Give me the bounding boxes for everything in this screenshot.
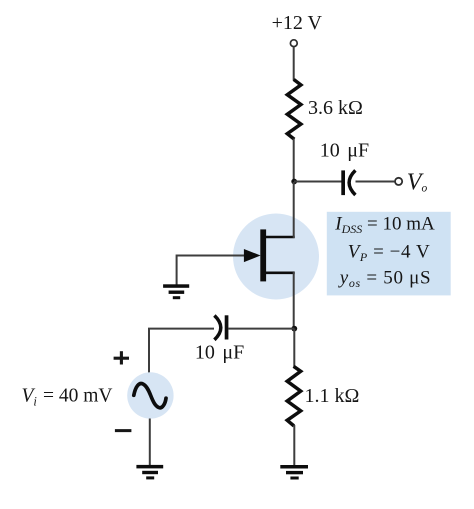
+12 V terminal xyxy=(290,40,297,47)
wire: source node down to RS xyxy=(293,329,295,367)
svg-text:10 μF: 10 μF xyxy=(195,342,244,364)
Vo output terminal xyxy=(395,178,402,185)
parameter box xyxy=(327,212,451,296)
wire: supply terminal to RD xyxy=(293,47,295,81)
svg-text:+12 V: +12 V xyxy=(272,12,323,34)
resistor RD 3.6 kOhm xyxy=(287,80,301,140)
JFET source lead xyxy=(264,271,295,274)
resistor RS 1.1 kOhm xyxy=(287,366,301,426)
wire: RD to drain node xyxy=(293,139,295,183)
wire: RS to ground xyxy=(293,425,295,466)
capacitor C2 (output 10 uF) xyxy=(341,170,355,195)
ground (gate) xyxy=(163,284,189,299)
JFET Q1 channel bar xyxy=(260,229,266,281)
wire: drain lead up to node xyxy=(293,182,295,238)
sine waveform xyxy=(134,384,166,408)
wire: input cap right to source node xyxy=(229,328,295,330)
svg-text:1.1 kΩ: 1.1 kΩ xyxy=(305,385,360,407)
svg-text:3.6 kΩ: 3.6 kΩ xyxy=(308,97,363,119)
capacitor C1 (input 10 uF) xyxy=(214,315,228,340)
node: source junction xyxy=(291,326,297,332)
ground (source) xyxy=(136,465,163,480)
wire: left vertical top to input cap xyxy=(149,329,214,373)
wire: source bottom to ground xyxy=(149,419,151,467)
wire: source lead down to node xyxy=(293,272,295,329)
wire: gate lead to ground xyxy=(177,256,247,286)
wire: drain node to C2 xyxy=(294,181,342,183)
wire: C2 to Vo terminal xyxy=(356,181,395,183)
node: drain output junction xyxy=(291,179,297,185)
minus polarity sign xyxy=(115,429,131,432)
JFET highlight circle xyxy=(233,214,319,300)
JFET gate arrowhead xyxy=(244,249,261,262)
svg-text:10 μF: 10 μF xyxy=(320,140,369,162)
ground (RS) xyxy=(280,465,308,480)
source Vi highlight circle xyxy=(127,372,173,418)
+ polarity sign xyxy=(114,351,129,364)
JFET drain lead xyxy=(264,236,295,239)
